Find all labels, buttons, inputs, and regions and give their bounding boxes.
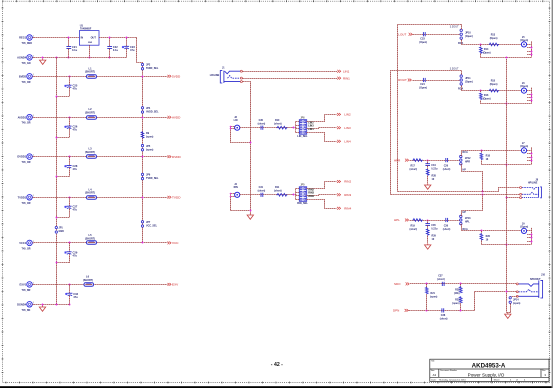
wire row EXV	[34, 284, 168, 286]
wire JP13 HP path	[461, 195, 483, 216]
wire 3.5OUT left loop LOUT	[398, 25, 462, 192]
svg-text:47u: 47u	[73, 128, 78, 132]
svg-text:(short): (short)	[258, 190, 266, 193]
svg-text:Date:: Date:	[431, 379, 437, 382]
svg-text:AVDD: AVDD	[172, 116, 181, 120]
wire J1 ring to RIN1	[242, 78, 337, 80]
capacitor C25 47u	[69, 76, 71, 78]
rca jack J5 (Open)	[521, 42, 526, 47]
ground symbol AGND	[42, 57, 44, 59]
svg-text:AGND4: AGND4	[17, 56, 27, 60]
inductor L2 (short)	[87, 116, 97, 120]
svg-text:47u: 47u	[73, 295, 78, 299]
svg-text:Power Supply, I/O: Power Supply, I/O	[468, 372, 505, 377]
capacitor C23 47u	[122, 38, 136, 58]
svg-text:JP9: JP9	[300, 184, 305, 187]
jumper JP13	[460, 215, 462, 225]
ground symbol DGND	[42, 304, 44, 306]
voltage regulator U1 TA48M05F	[79, 24, 99, 46]
svg-text:0.1u: 0.1u	[72, 48, 78, 52]
svg-text:Rev: Rev	[542, 370, 546, 372]
node J4 to header	[293, 194, 295, 196]
title block	[430, 359, 549, 381]
wire JP13 RCA path	[461, 225, 522, 231]
wire JP9 left pin stubs	[296, 188, 300, 190]
svg-text:Sheet: Sheet	[494, 379, 500, 382]
svg-text:1: 1	[33, 195, 34, 197]
capacitor C24 (Open)	[423, 78, 425, 82]
wire output LIN4	[307, 133, 337, 142]
capacitor C29 47u	[69, 242, 71, 244]
resistor R9 (open)	[141, 131, 144, 138]
node ground rail J7	[506, 164, 508, 166]
svg-text:GND: GND	[88, 42, 93, 44]
connector BVDD	[27, 74, 34, 80]
svg-text:AKD4953-A: AKD4953-A	[472, 362, 506, 369]
svg-text:DVDD: DVDD	[172, 155, 182, 159]
wire ground rail vertical	[56, 57, 58, 59]
svg-text:RIN_SEL: RIN_SEL	[297, 202, 308, 205]
svg-text:T45_OR: T45_OR	[22, 81, 31, 84]
svg-text:LIN_SEL: LIN_SEL	[297, 135, 308, 138]
wire JP10 RCA branch	[462, 40, 522, 45]
capacitor C38 (short)	[442, 308, 444, 312]
svg-text:RCA: RCA	[463, 151, 468, 154]
svg-text:DPN: DPN	[393, 309, 399, 313]
capacitor C31 (short)	[261, 193, 263, 197]
svg-text:T45_OR: T45_OR	[22, 161, 31, 164]
svg-text:0.22u: 0.22u	[431, 168, 438, 171]
svg-text:U1: U1	[80, 24, 84, 28]
wire output LIN2	[307, 115, 337, 122]
wire HP jack ring line	[391, 194, 520, 196]
svg-text:LIN3: LIN3	[344, 126, 351, 130]
resistor R16 (Open) to ground	[480, 90, 482, 92]
wire J6 shield bracket	[527, 90, 532, 92]
node HPR filter	[427, 160, 429, 162]
svg-text:LOUT: LOUT	[398, 32, 406, 36]
wire output RIN3	[307, 195, 337, 196]
capacitor C26 (short)	[446, 158, 448, 162]
wire row AVDD	[34, 117, 168, 119]
svg-text:EXV: EXV	[172, 283, 179, 287]
header JP9	[299, 187, 306, 202]
capacitor C26 47u	[69, 117, 71, 119]
wire output RIN2	[307, 182, 337, 189]
svg-text:HP: HP	[463, 168, 467, 171]
node AVDD rail junction	[142, 117, 144, 119]
jumper JP7 VCC_SEL	[141, 221, 143, 228]
svg-text:RIN3: RIN3	[344, 193, 351, 197]
svg-text:(short): (short)	[443, 228, 451, 231]
net label TVDD	[168, 196, 172, 199]
ground symbol HPR	[427, 176, 429, 184]
jumper JP14 (open)	[510, 296, 517, 298]
inductor L6 (short)	[84, 283, 94, 287]
node J3 to header	[293, 127, 295, 129]
node HPL filter	[427, 220, 429, 222]
wire right ground rail vertical	[506, 59, 508, 313]
capacitor C22 0.1u	[107, 38, 118, 58]
optical jack J10 SPK/OUT	[518, 280, 542, 298]
svg-text:RIN1: RIN1	[343, 76, 350, 80]
wire U1 OUT to rail	[99, 37, 137, 39]
inductor L1 (short)	[87, 75, 97, 79]
wire cap C28 to ground rail	[56, 176, 69, 178]
ground symbol right rail	[505, 313, 511, 319]
svg-text:REG1: REG1	[19, 36, 27, 40]
node TVDD rail junction	[142, 197, 144, 199]
svg-text:(open): (open)	[452, 302, 460, 305]
svg-text:47u: 47u	[130, 48, 135, 52]
wire J1 sleeve to ground rail	[243, 82, 251, 214]
wire LOUT input	[413, 34, 461, 36]
svg-text:47u: 47u	[73, 87, 78, 91]
rca jack J3	[235, 125, 240, 130]
svg-text:A3: A3	[433, 373, 437, 377]
svg-text:HPR: HPR	[394, 158, 401, 162]
connector EXV1	[27, 282, 34, 288]
svg-text:1: 1	[33, 115, 34, 117]
resistor R20 16	[481, 230, 483, 232]
svg-text:(Open): (Open)	[465, 81, 473, 84]
jumper JP6 TVDD_SEL	[141, 173, 143, 180]
wire cap C27 to ground rail	[56, 217, 69, 219]
wire HP jack sleeve to ground rail	[507, 197, 520, 199]
jumper JP1 GND on ground rail	[55, 226, 57, 233]
resistor R11 (short)	[277, 193, 288, 196]
wire output RIN4	[307, 200, 337, 209]
wire DPN row	[409, 292, 517, 311]
wire J7 shield bracket	[527, 150, 532, 152]
capacitor C27 47u	[69, 197, 71, 199]
bottom black page edge	[0, 386, 553, 388]
svg-text:(Open): (Open)	[520, 39, 528, 42]
svg-text:5VDD: 5VDD	[172, 75, 181, 79]
svg-text:(short): (short)	[443, 168, 451, 171]
svg-text:(SHORT): (SHORT)	[85, 192, 95, 195]
svg-text:(open): (open)	[146, 135, 154, 138]
net label EXV	[168, 283, 172, 286]
svg-text:HP: HP	[463, 211, 467, 214]
wire HPL input	[410, 220, 461, 222]
svg-text:T45_BR: T45_BR	[22, 289, 31, 292]
rca jack J7	[521, 148, 526, 153]
svg-text:J10: J10	[541, 273, 546, 276]
svg-text:(SHORT): (SHORT)	[85, 151, 95, 154]
svg-text:(short): (short)	[274, 123, 282, 126]
svg-text:BVDD: BVDD	[19, 74, 26, 78]
svg-text:(short): (short)	[258, 123, 266, 126]
svg-text:LIN4: LIN4	[308, 128, 314, 131]
svg-text:SPK/OUT: SPK/OUT	[530, 278, 541, 281]
svg-text:Document Number: Document Number	[440, 369, 457, 372]
svg-text:(short): (short)	[440, 317, 448, 320]
svg-text:0.22u: 0.22u	[431, 227, 438, 230]
inductor L5 (short)	[87, 241, 97, 245]
svg-text:(short): (short)	[410, 168, 418, 171]
wire J5 shield bracket	[527, 44, 532, 46]
svg-text:DGND4: DGND4	[17, 302, 27, 306]
svg-text:- 42 -: - 42 -	[271, 362, 283, 368]
net label DVDD	[168, 155, 172, 158]
svg-text:(Open): (Open)	[490, 37, 498, 40]
net label VCC	[168, 242, 172, 245]
wire 3.5OUT loop top	[461, 25, 463, 30]
rca jack J4	[235, 192, 240, 197]
node ground rail J9	[506, 244, 508, 246]
svg-text:3.5OUT: 3.5OUT	[450, 67, 459, 70]
wire HP jack tip line	[398, 188, 520, 192]
wire 3.5OUT loop top	[461, 71, 463, 75]
svg-text:LIN: LIN	[234, 119, 238, 122]
svg-text:47u: 47u	[73, 167, 78, 171]
svg-text:TVDD: TVDD	[172, 196, 181, 200]
svg-text:(10k): (10k)	[454, 292, 460, 295]
wire U1 GND pin	[89, 45, 91, 57]
svg-text:RIN2: RIN2	[344, 180, 351, 184]
svg-text:(short): (short)	[437, 278, 445, 281]
svg-text:1: 1	[33, 282, 34, 284]
wire J4 ground bracket	[231, 194, 251, 211]
svg-text:SDO: SDO	[394, 282, 401, 286]
wire SDO to optical out	[410, 283, 516, 285]
connector AGND4	[27, 55, 34, 61]
jumper JP4 AVDD_SEL	[141, 107, 143, 114]
svg-text:HPR: HPR	[465, 161, 470, 164]
resistor R15 (Open)	[489, 89, 499, 92]
phone jack J1 LR/LINE	[220, 71, 240, 83]
capacitor C30 (short)	[261, 126, 263, 130]
resistor R10 (short)	[277, 126, 288, 129]
capacitor C28 47u	[69, 156, 71, 158]
inductor L4 (short)	[87, 196, 97, 200]
net label RIN1	[337, 77, 341, 80]
svg-text:JP8: JP8	[300, 116, 305, 119]
svg-text:T45_GN: T45_GN	[22, 62, 31, 65]
svg-text:Thursday, January 14, 2010: Thursday, January 14, 2010	[439, 379, 467, 382]
resistor R23 (open)	[459, 296, 462, 303]
svg-text:LIN4: LIN4	[344, 139, 351, 143]
connector DGND4	[27, 302, 34, 308]
svg-text:1: 1	[33, 74, 34, 76]
wire J1 tip to LIN1	[242, 71, 337, 73]
resistor R17 (short)	[413, 159, 423, 162]
svg-text:TVDD1: TVDD1	[18, 195, 27, 199]
svg-text:TA48M05F: TA48M05F	[80, 28, 92, 31]
svg-text:OUT: OUT	[91, 37, 97, 40]
header JP8	[299, 120, 306, 135]
svg-text:T45_OR: T45_OR	[22, 247, 31, 250]
rca jack J9	[521, 228, 526, 233]
net label 5VDD	[168, 75, 172, 78]
svg-text:ROUT: ROUT	[398, 78, 407, 82]
svg-text:3.5OUT: 3.5OUT	[450, 25, 459, 28]
wire HPR input	[410, 160, 461, 162]
svg-text:(open): (open)	[430, 296, 438, 299]
svg-text:5VDD_SEL: 5VDD_SEL	[146, 67, 159, 70]
node ground rail end	[56, 304, 58, 306]
wire DGND row	[34, 304, 70, 306]
svg-text:AVDD_SEL: AVDD_SEL	[146, 111, 159, 114]
svg-text:(short): (short)	[410, 228, 418, 231]
node ground rail J5	[506, 57, 508, 59]
svg-text:1: 1	[33, 302, 34, 304]
svg-text:(SHORT): (SHORT)	[85, 112, 95, 115]
svg-text:(open): (open)	[146, 148, 154, 151]
svg-text:TVDD_SEL: TVDD_SEL	[146, 177, 159, 180]
wire row 5VDD	[34, 76, 168, 78]
svg-text:LR/LINE: LR/LINE	[210, 74, 220, 77]
svg-text:(short): (short)	[274, 190, 282, 193]
capacitor C21 0.1u	[66, 38, 77, 58]
svg-text:IN: IN	[81, 37, 84, 40]
svg-text:VCC1: VCC1	[19, 241, 26, 245]
wire row DVDD	[34, 156, 168, 158]
wire JP12 HP path	[461, 165, 483, 192]
svg-text:DVDD1: DVDD1	[17, 155, 26, 159]
svg-text:T45_OR: T45_OR	[22, 122, 31, 125]
wire J4 signal	[240, 194, 297, 196]
svg-text:LIN2: LIN2	[344, 113, 351, 117]
svg-text:RIN4: RIN4	[308, 195, 314, 198]
wire cap C29 to ground rail	[56, 262, 69, 264]
connector TVDD1	[27, 195, 34, 201]
resistor R13 (Open)	[489, 43, 499, 46]
connector VCC1	[27, 240, 34, 246]
svg-text:EXV1: EXV1	[20, 283, 27, 287]
svg-text:(Open): (Open)	[483, 51, 491, 54]
svg-text:T45_BK: T45_BK	[22, 309, 31, 312]
headphone jack J8 HP/LINE	[522, 187, 542, 198]
svg-text:HPL: HPL	[465, 221, 470, 224]
resistor R22 10k	[460, 283, 462, 285]
wire output LIN3	[307, 128, 337, 129]
wire J9 shield bracket	[527, 230, 532, 232]
svg-text:(Open): (Open)	[419, 41, 427, 44]
wire 3.5OUT left loop ROUT	[391, 71, 462, 195]
ground symbol middle	[247, 214, 253, 220]
svg-text:(Open): (Open)	[520, 226, 528, 229]
svg-text:T45_OR: T45_OR	[22, 202, 31, 205]
node 5VDD rail junction	[142, 76, 144, 78]
svg-text:T45_RED: T45_RED	[22, 42, 33, 45]
net label LIN1	[337, 70, 341, 73]
svg-text:(open): (open)	[513, 302, 521, 305]
wire JP8 left pin stubs	[296, 121, 300, 123]
resistor R29 10	[427, 225, 429, 228]
jumper JP5 (open)	[141, 144, 143, 151]
wire 5V rail from regulator	[137, 38, 143, 243]
connector REG1	[27, 35, 34, 41]
wire cap C25 to ground rail	[56, 96, 69, 98]
node DVDD rail junction	[142, 156, 144, 158]
wire cap C26 to ground rail	[56, 137, 69, 139]
svg-text:1: 1	[33, 55, 34, 57]
svg-text:47u: 47u	[73, 208, 78, 212]
jumper JP2 5VDD_SEL	[141, 63, 143, 70]
wire J3 signal	[240, 127, 297, 129]
svg-text:LIN1: LIN1	[343, 69, 350, 73]
svg-text:(SHORT): (SHORT)	[85, 237, 95, 240]
svg-text:AVDD1: AVDD1	[18, 115, 27, 119]
svg-text:VCC_SEL: VCC_SEL	[146, 225, 158, 228]
ground symbol HPL	[427, 236, 429, 244]
wire ROUT input	[413, 80, 461, 82]
wire REG1 to U1 IN	[34, 37, 80, 39]
resistor R28 10	[427, 166, 429, 169]
wire JP11 RCA branch	[462, 86, 522, 91]
connector AVDD1	[27, 114, 34, 120]
wire JP14 to ground	[507, 304, 511, 313]
node ground rail J6	[506, 103, 508, 105]
wire AGND rail horizontal	[34, 57, 127, 59]
connector DVDD1	[27, 154, 34, 160]
svg-text:VCC: VCC	[172, 241, 179, 245]
capacitor C37 (short)	[442, 282, 444, 286]
resistor R19 (short)	[413, 219, 423, 222]
capacitor C35 0.22u	[427, 220, 429, 224]
capacitor C32 47u	[69, 284, 71, 286]
svg-text:(Open): (Open)	[465, 35, 473, 38]
jumper JP10 (Open)	[460, 29, 462, 39]
resistor R18 16	[481, 150, 483, 152]
svg-text:HP/LINE: HP/LINE	[528, 182, 538, 185]
wire row TVDD	[34, 197, 168, 199]
wire JP12 RCA path	[461, 151, 522, 156]
svg-text:(SHORT): (SHORT)	[83, 279, 93, 282]
net label AVDD	[168, 116, 172, 119]
svg-text:GND: GND	[59, 230, 65, 233]
resistor R14 (Open) to ground	[480, 44, 482, 46]
capacitor C34 0.22u	[427, 160, 429, 164]
svg-text:(SHORT): (SHORT)	[85, 71, 95, 74]
svg-text:RIN4: RIN4	[344, 207, 351, 211]
svg-text:(Open): (Open)	[520, 145, 528, 148]
node VCC rail junction	[142, 242, 144, 244]
svg-text:HPL: HPL	[394, 218, 400, 222]
svg-text:0.1u: 0.1u	[113, 48, 119, 52]
capacitor C36 (short)	[446, 218, 448, 222]
right grey page edge	[552, 0, 553, 388]
svg-text:RIN: RIN	[234, 186, 238, 189]
svg-text:(Open): (Open)	[483, 98, 491, 101]
rca jack J6 (Open)	[521, 88, 526, 93]
resistor R21 (open)	[426, 283, 428, 285]
wire J3 ground bracket	[231, 127, 251, 143]
inductor L3 (short)	[87, 155, 97, 159]
svg-text:(Open): (Open)	[419, 87, 427, 90]
svg-text:(Open): (Open)	[490, 83, 498, 86]
svg-text:(Open): (Open)	[520, 85, 528, 88]
capacitor C33 (Open)	[423, 32, 425, 36]
jumper JP11 (Open)	[460, 75, 462, 85]
wire row VCC	[34, 242, 168, 244]
svg-text:47u: 47u	[73, 253, 78, 257]
jumper JP12	[460, 155, 462, 165]
